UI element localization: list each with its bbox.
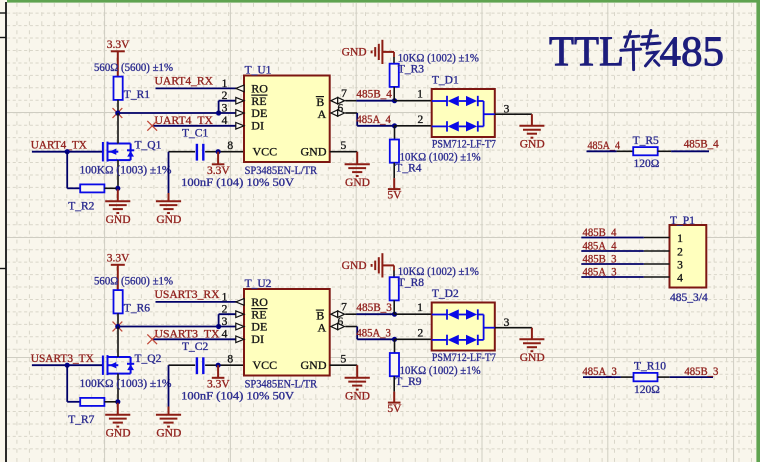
svg-text:T_P1: T_P1 bbox=[670, 215, 695, 227]
svg-text:1: 1 bbox=[417, 302, 423, 314]
svg-text:T_R9: T_R9 bbox=[395, 376, 421, 388]
ground bbox=[156, 407, 181, 427]
wire bbox=[218, 151, 244, 153]
wire bbox=[104, 187, 116, 189]
wire bbox=[395, 100, 432, 102]
svg-text:100nF (104) 10% 50V: 100nF (104) 10% 50V bbox=[181, 177, 295, 189]
svg-text:GND: GND bbox=[156, 214, 181, 226]
connector T_P1 bbox=[670, 225, 707, 288]
junction bbox=[65, 149, 70, 154]
wire bbox=[356, 113, 358, 126]
wire bbox=[117, 100, 119, 113]
ic T_U2 SP3485 bbox=[244, 289, 330, 376]
no-ERC marker bbox=[147, 334, 157, 344]
ground bbox=[105, 189, 130, 213]
resistor T_R2 bbox=[80, 184, 104, 192]
tvs internal wire bbox=[484, 315, 495, 340]
pin 2 bbox=[236, 97, 244, 104]
wire bbox=[117, 313, 119, 326]
svg-text:2: 2 bbox=[677, 247, 683, 259]
ground bbox=[345, 152, 370, 176]
svg-text:T_C2: T_C2 bbox=[182, 341, 208, 353]
no-ERC marker bbox=[113, 322, 123, 332]
ground bbox=[345, 365, 370, 389]
ground bbox=[519, 114, 544, 138]
resistor T_R5 bbox=[633, 147, 658, 155]
svg-text:6: 6 bbox=[338, 102, 344, 114]
svg-text:1: 1 bbox=[222, 291, 228, 303]
svg-text:3: 3 bbox=[677, 260, 683, 272]
capacitor T_C2 bbox=[197, 357, 203, 374]
wire bbox=[330, 364, 358, 366]
resistor T_R7 bbox=[80, 398, 104, 406]
wire bbox=[393, 87, 395, 101]
wire bbox=[219, 100, 237, 102]
tvs array T_D1 bbox=[432, 89, 495, 137]
wire bbox=[394, 126, 396, 140]
wire bbox=[621, 376, 634, 378]
wire bbox=[356, 313, 394, 315]
svg-text:GND: GND bbox=[301, 145, 327, 159]
svg-text:2: 2 bbox=[418, 114, 424, 126]
junction bbox=[392, 98, 397, 103]
resistor T_R8 bbox=[390, 277, 399, 300]
pin 6 bbox=[331, 323, 338, 329]
wire bbox=[66, 365, 68, 402]
wire bbox=[393, 163, 395, 178]
power port 3.3V (VCC) bbox=[212, 365, 225, 378]
tvs array T_D2 bbox=[432, 303, 495, 351]
svg-text:GND: GND bbox=[106, 214, 131, 226]
pin 1 bbox=[236, 299, 244, 306]
capacitor T_C1 bbox=[197, 144, 203, 161]
pin 4 bbox=[236, 336, 244, 343]
wire bbox=[218, 364, 244, 366]
resistor T_R3 bbox=[390, 64, 399, 87]
svg-text:120Ω: 120Ω bbox=[634, 158, 660, 170]
svg-text:GND: GND bbox=[520, 139, 545, 151]
svg-text:UART4_TX: UART4_TX bbox=[31, 139, 88, 151]
wire bbox=[670, 376, 713, 378]
diode pair bbox=[432, 96, 484, 106]
wire bbox=[581, 276, 644, 278]
svg-text:T_R2: T_R2 bbox=[68, 201, 94, 213]
tvs internal wire bbox=[484, 101, 495, 126]
diode pair bbox=[432, 335, 484, 345]
svg-text:5: 5 bbox=[341, 140, 347, 152]
wire bbox=[356, 100, 394, 102]
svg-text:T_D1: T_D1 bbox=[432, 75, 459, 87]
svg-text:USART3_RX: USART3_RX bbox=[155, 289, 221, 301]
ground (sideways) bbox=[372, 40, 394, 64]
resistor T_R10 bbox=[634, 373, 658, 381]
svg-text:485_3/4: 485_3/4 bbox=[670, 292, 708, 304]
pin 2 bbox=[236, 311, 244, 318]
wire bbox=[581, 250, 644, 252]
resistor T_R1 bbox=[114, 77, 123, 100]
svg-text:SP3485EN-L/TR: SP3485EN-L/TR bbox=[245, 378, 318, 390]
svg-text:T_R8: T_R8 bbox=[398, 277, 424, 289]
wire bbox=[658, 150, 671, 152]
wire bbox=[357, 125, 394, 127]
svg-text:485A_4: 485A_4 bbox=[356, 114, 391, 126]
svg-text:100KΩ (1003) ±1%: 100KΩ (1003) ±1% bbox=[80, 165, 172, 177]
wire bbox=[117, 160, 119, 188]
junction bbox=[115, 186, 120, 191]
svg-text:485B_4: 485B_4 bbox=[356, 89, 392, 101]
wire bbox=[67, 401, 80, 403]
wire bbox=[581, 237, 644, 239]
wire bbox=[118, 326, 219, 328]
wire bbox=[345, 313, 356, 315]
svg-text:3.3V: 3.3V bbox=[207, 165, 230, 177]
wire bbox=[156, 301, 237, 303]
svg-text:GND: GND bbox=[520, 352, 545, 364]
resistor T_R6 bbox=[114, 290, 123, 313]
no-ERC marker bbox=[113, 108, 123, 118]
svg-text:5V: 5V bbox=[387, 403, 402, 415]
svg-text:A: A bbox=[318, 321, 327, 335]
wire bbox=[152, 338, 236, 340]
ground (sideways) bbox=[372, 253, 394, 277]
svg-text:T_R7: T_R7 bbox=[68, 414, 94, 426]
pin 6 bbox=[331, 110, 338, 116]
svg-text:3.3V: 3.3V bbox=[207, 378, 230, 390]
junction bbox=[392, 123, 397, 128]
wire bbox=[219, 112, 237, 114]
svg-text:3.3V: 3.3V bbox=[107, 39, 130, 51]
svg-text:T_Q2: T_Q2 bbox=[135, 353, 162, 365]
svg-text:GND: GND bbox=[342, 46, 367, 58]
svg-text:3: 3 bbox=[222, 316, 228, 328]
wire bbox=[156, 87, 237, 89]
ic T_U1 SP3485 bbox=[244, 76, 330, 163]
wire bbox=[169, 364, 196, 366]
wire bbox=[32, 364, 103, 366]
svg-text:7: 7 bbox=[341, 301, 347, 313]
svg-text:2: 2 bbox=[222, 90, 228, 102]
svg-text:4: 4 bbox=[222, 115, 228, 127]
resistor T_R9 bbox=[390, 353, 399, 376]
wire bbox=[395, 125, 432, 127]
ground bbox=[156, 193, 181, 213]
svg-text:485B_4: 485B_4 bbox=[684, 138, 719, 150]
pin 7 bbox=[331, 98, 338, 104]
wire bbox=[169, 151, 196, 153]
wire bbox=[66, 152, 68, 189]
svg-text:TTL: TTL bbox=[549, 30, 624, 76]
svg-text:8: 8 bbox=[227, 140, 233, 152]
junction bbox=[115, 399, 120, 404]
wire bbox=[395, 338, 432, 340]
title CJK character zhuan bbox=[621, 30, 660, 69]
svg-text:T_C1: T_C1 bbox=[182, 127, 208, 139]
junction bbox=[115, 324, 120, 329]
pin 3 bbox=[236, 323, 244, 330]
svg-text:DI: DI bbox=[251, 118, 264, 132]
junction bbox=[65, 363, 70, 368]
wire bbox=[345, 100, 356, 102]
svg-text:100nF (104) 10% 50V: 100nF (104) 10% 50V bbox=[181, 391, 295, 403]
wire bbox=[345, 326, 357, 328]
svg-text:3: 3 bbox=[222, 103, 228, 115]
wire bbox=[345, 112, 357, 114]
wire bbox=[356, 327, 358, 340]
wire bbox=[219, 313, 237, 315]
svg-text:7: 7 bbox=[341, 88, 347, 100]
svg-text:3.3V: 3.3V bbox=[107, 253, 130, 265]
diode pair bbox=[432, 309, 484, 319]
svg-text:T_U2: T_U2 bbox=[245, 278, 272, 290]
junction bbox=[392, 312, 397, 317]
svg-text:T_Q1: T_Q1 bbox=[135, 140, 162, 152]
wire bbox=[658, 376, 670, 378]
wire bbox=[219, 326, 237, 328]
svg-text:PSM712-LF-T7: PSM712-LF-T7 bbox=[432, 138, 496, 150]
transistor T_Q1 bbox=[103, 142, 134, 162]
svg-text:T_R1: T_R1 bbox=[124, 89, 150, 101]
wire bbox=[393, 300, 395, 314]
svg-text:SP3485EN-L/TR: SP3485EN-L/TR bbox=[245, 165, 318, 177]
svg-text:485B_3: 485B_3 bbox=[684, 366, 718, 378]
svg-text:485: 485 bbox=[660, 30, 725, 76]
svg-text:UART4_RX: UART4_RX bbox=[155, 76, 214, 88]
wire bbox=[394, 339, 396, 353]
svg-text:GND: GND bbox=[156, 428, 181, 440]
resistor T_R4 bbox=[390, 140, 399, 163]
svg-text:560Ω (5600) ±1%: 560Ω (5600) ±1% bbox=[94, 62, 173, 74]
diode pair bbox=[432, 121, 484, 131]
wire bbox=[218, 314, 220, 326]
wire bbox=[117, 374, 119, 402]
pin 7 bbox=[331, 311, 338, 317]
wire bbox=[32, 151, 103, 153]
svg-text:10KΩ (1002) ±1%: 10KΩ (1002) ±1% bbox=[398, 52, 479, 64]
svg-text:560Ω (5600) ±1%: 560Ω (5600) ±1% bbox=[94, 276, 173, 288]
wire bbox=[104, 401, 116, 403]
svg-text:A: A bbox=[318, 107, 327, 121]
wire bbox=[671, 150, 709, 152]
junction bbox=[216, 149, 221, 154]
wire bbox=[117, 113, 119, 144]
power port 5V bbox=[388, 392, 401, 403]
svg-text:T_D2: T_D2 bbox=[432, 288, 459, 300]
svg-text:VCC: VCC bbox=[253, 358, 278, 372]
wire bbox=[581, 263, 644, 265]
wire bbox=[495, 327, 532, 329]
power port 5V bbox=[388, 178, 401, 189]
ground bbox=[105, 403, 130, 427]
svg-text:10KΩ (1002) ±1%: 10KΩ (1002) ±1% bbox=[398, 266, 479, 278]
wire bbox=[583, 376, 621, 378]
pin 3 bbox=[236, 110, 244, 117]
svg-text:6: 6 bbox=[338, 316, 344, 328]
power port 3.3V (VCC) bbox=[212, 152, 225, 165]
svg-text:T_R4: T_R4 bbox=[395, 163, 421, 175]
wire bbox=[393, 52, 395, 57]
svg-text:GND: GND bbox=[106, 428, 131, 440]
wire bbox=[152, 125, 236, 127]
svg-text:5: 5 bbox=[341, 353, 347, 365]
svg-text:485A_3: 485A_3 bbox=[356, 327, 391, 339]
junction bbox=[115, 110, 120, 115]
wire bbox=[205, 364, 218, 366]
svg-text:120Ω: 120Ω bbox=[634, 384, 660, 396]
svg-text:VCC: VCC bbox=[253, 145, 278, 159]
wire bbox=[587, 150, 617, 152]
svg-text:100KΩ (1003) ±1%: 100KΩ (1003) ±1% bbox=[80, 378, 172, 390]
wire bbox=[67, 187, 80, 189]
svg-text:T_R10: T_R10 bbox=[634, 361, 666, 373]
junction bbox=[216, 110, 221, 115]
ground bbox=[519, 328, 544, 352]
junction bbox=[392, 337, 397, 342]
junction bbox=[216, 363, 221, 368]
svg-text:GND: GND bbox=[345, 391, 370, 403]
pin 1 bbox=[236, 85, 244, 92]
svg-text:GND: GND bbox=[301, 358, 327, 372]
wire bbox=[168, 365, 170, 407]
svg-text:4: 4 bbox=[677, 273, 683, 285]
wire bbox=[393, 265, 395, 270]
svg-text:485A_4: 485A_4 bbox=[588, 140, 621, 152]
svg-text:1: 1 bbox=[677, 233, 683, 245]
svg-text:T_R6: T_R6 bbox=[124, 303, 150, 315]
svg-text:485B_3: 485B_3 bbox=[356, 302, 392, 314]
no-ERC marker bbox=[147, 121, 157, 131]
wire bbox=[168, 152, 170, 194]
svg-text:T_R3: T_R3 bbox=[398, 64, 424, 76]
svg-text:PSM712-LF-T7: PSM712-LF-T7 bbox=[432, 352, 496, 364]
svg-text:GND: GND bbox=[342, 260, 367, 272]
wire bbox=[118, 112, 219, 114]
sheet border (left edge) bbox=[5, 2, 7, 462]
wire bbox=[205, 151, 218, 153]
wire bbox=[117, 327, 119, 358]
svg-text:4: 4 bbox=[222, 328, 228, 340]
junction bbox=[216, 324, 221, 329]
wire bbox=[357, 338, 394, 340]
wire bbox=[330, 151, 358, 153]
transistor T_Q2 bbox=[103, 355, 134, 375]
svg-text:USART3_TX: USART3_TX bbox=[31, 353, 95, 365]
svg-text:T_R5: T_R5 bbox=[633, 135, 659, 147]
svg-text:1: 1 bbox=[417, 89, 423, 101]
wire bbox=[617, 150, 634, 152]
pin 4 bbox=[236, 123, 244, 130]
wire bbox=[393, 376, 395, 391]
svg-text:GND: GND bbox=[345, 177, 370, 189]
svg-text:T_U1: T_U1 bbox=[245, 65, 272, 77]
svg-text:1: 1 bbox=[222, 78, 228, 90]
svg-text:2: 2 bbox=[418, 327, 424, 339]
svg-text:2: 2 bbox=[222, 304, 228, 316]
wire bbox=[218, 101, 220, 113]
wire bbox=[495, 113, 532, 115]
svg-text:5V: 5V bbox=[387, 190, 402, 202]
wire bbox=[395, 313, 432, 315]
svg-text:8: 8 bbox=[227, 353, 233, 365]
svg-text:DI: DI bbox=[251, 332, 264, 346]
